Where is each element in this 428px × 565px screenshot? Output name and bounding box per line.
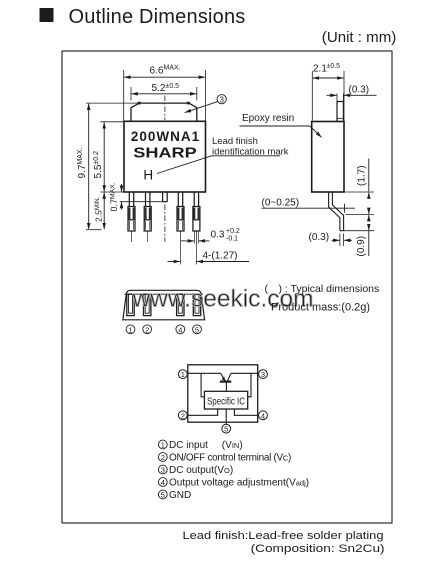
svg-text:(Unit : mm): (Unit : mm) bbox=[322, 30, 397, 46]
ext line 9.7 top bbox=[86, 102, 139, 104]
pin number 5 bbox=[193, 325, 202, 335]
svg-text:200WNA1: 200WNA1 bbox=[131, 129, 200, 144]
diagram pin 5 bbox=[222, 424, 231, 434]
svg-text:±0.5: ±0.5 bbox=[327, 63, 341, 70]
ref line 0-0.25 bbox=[262, 207, 356, 209]
svg-text:5: 5 bbox=[161, 491, 165, 500]
dim 0.3 top arrows bbox=[327, 94, 337, 96]
svg-text:-0.1: -0.1 bbox=[226, 236, 238, 243]
svg-text:9.7MAX.: 9.7MAX. bbox=[77, 147, 88, 178]
svg-text:(0.3): (0.3) bbox=[309, 232, 330, 243]
svg-text:5.2: 5.2 bbox=[152, 83, 166, 94]
side tab step line bbox=[337, 117, 343, 119]
svg-text:3: 3 bbox=[219, 95, 224, 104]
svg-text:0.3: 0.3 bbox=[211, 230, 225, 241]
svg-text:4: 4 bbox=[178, 325, 182, 334]
svg-text:1: 1 bbox=[161, 441, 165, 450]
svg-text:4-(1.27): 4-(1.27) bbox=[203, 251, 238, 262]
pin description 4 bbox=[158, 478, 309, 489]
tab joint dot right bbox=[187, 102, 190, 105]
svg-text:4: 4 bbox=[161, 478, 165, 487]
wire drop left bbox=[201, 373, 204, 397]
svg-text:Specific IC: Specific IC bbox=[207, 395, 245, 407]
svg-text:Outline Dimensions: Outline Dimensions bbox=[69, 6, 246, 28]
svg-text:DC output(VO): DC output(VO) bbox=[169, 465, 233, 476]
INTERNAL CONNECTION DIAGRAM bbox=[188, 365, 258, 425]
dim line 2.5 bbox=[103, 193, 105, 230]
svg-text:(1.7): (1.7) bbox=[357, 165, 368, 186]
side lead bbox=[329, 192, 344, 231]
ext line body bottom left bbox=[101, 191, 125, 193]
svg-text:2: 2 bbox=[161, 453, 165, 462]
svg-text:GND: GND bbox=[169, 490, 191, 501]
label lead finish identification mark bbox=[157, 136, 289, 174]
lead 4 bbox=[177, 192, 184, 265]
side tab bbox=[337, 102, 343, 122]
svg-text:Lead finish: Lead finish bbox=[212, 136, 258, 147]
dim 0.3 bottom arrows bbox=[332, 239, 340, 241]
extension lines 5.2 bbox=[130, 87, 132, 101]
pin description 5 bbox=[158, 490, 191, 501]
bottom view lead 1 bbox=[127, 294, 134, 315]
svg-text:2.1: 2.1 bbox=[313, 64, 327, 75]
wire pin2 bbox=[188, 409, 218, 415]
ext bend end bbox=[346, 214, 375, 216]
bottom view lead 2 bbox=[144, 294, 151, 315]
tick on ref line bbox=[344, 204, 346, 213]
tab centerline bbox=[164, 96, 166, 121]
ext lines 2.1 bbox=[311, 71, 313, 121]
ext lead tip bbox=[344, 230, 374, 232]
svg-text:( ) : Typical dimensions: ( ) : Typical dimensions bbox=[265, 283, 380, 295]
svg-text:(0~0.25): (0~0.25) bbox=[262, 198, 300, 209]
package body bbox=[124, 121, 206, 192]
svg-text:MAX.: MAX. bbox=[164, 64, 181, 71]
diagram pin 2 bbox=[178, 411, 187, 421]
diagram pin 4 bbox=[259, 411, 268, 421]
ext body bottom right bbox=[344, 191, 374, 193]
ext lines 0.3 top bbox=[336, 94, 338, 102]
svg-text:1: 1 bbox=[181, 370, 185, 379]
pin number 4 bbox=[176, 325, 185, 335]
svg-text:5: 5 bbox=[224, 425, 228, 434]
bottom view inner line bbox=[124, 293, 203, 295]
SIDE VIEW bbox=[262, 71, 377, 256]
svg-text:3: 3 bbox=[261, 370, 265, 379]
frame border bbox=[62, 51, 392, 523]
left dimensions bbox=[86, 103, 163, 230]
diagram outer box bbox=[188, 365, 258, 422]
svg-text:DC input (VIN): DC input (VIN) bbox=[169, 440, 243, 451]
wire top right bbox=[231, 372, 258, 374]
svg-text:SHARP: SHARP bbox=[133, 145, 197, 162]
svg-text:±0.5: ±0.5 bbox=[166, 83, 180, 90]
svg-text:2: 2 bbox=[181, 411, 185, 420]
svg-text:2: 2 bbox=[145, 325, 149, 334]
IC block bbox=[204, 391, 247, 409]
bottom view lead 4 bbox=[177, 294, 184, 315]
wire drop right bbox=[248, 373, 251, 397]
lead 1 bbox=[128, 192, 135, 242]
dim 0.3 bottom ext lines bbox=[339, 234, 341, 247]
svg-text:1: 1 bbox=[128, 325, 132, 334]
ext line 0.7 bbox=[120, 201, 163, 203]
svg-text:4: 4 bbox=[261, 411, 265, 420]
side body bbox=[312, 122, 344, 193]
LEADS front view bbox=[128, 192, 200, 265]
svg-text:2.5MIN.: 2.5MIN. bbox=[94, 196, 104, 222]
extension lines 6.6 bbox=[123, 70, 125, 121]
svg-text:3: 3 bbox=[161, 466, 165, 475]
dim line 6.6 bbox=[124, 76, 205, 78]
dim line 1.7 bbox=[368, 159, 370, 192]
lead 2 bbox=[144, 192, 151, 242]
dim line 9.7 bbox=[88, 104, 90, 230]
label epoxy resin bbox=[240, 113, 322, 138]
pin number 2 bbox=[143, 325, 152, 335]
pin number 1 bbox=[126, 325, 135, 335]
dim 0.7 arrows bbox=[121, 184, 123, 192]
lead 5 bbox=[193, 192, 200, 265]
svg-text:(0.3): (0.3) bbox=[349, 85, 370, 96]
svg-text:0.7MAX.: 0.7MAX. bbox=[109, 182, 119, 211]
pin description 1 bbox=[158, 440, 242, 451]
dim 4-(1.27) bbox=[168, 261, 250, 263]
diagram pin 1 bbox=[178, 370, 187, 380]
tab joint dot left bbox=[138, 102, 141, 105]
dim line 0.9 bbox=[368, 215, 370, 221]
dim line 5.5 bbox=[103, 122, 105, 191]
pin description 2 bbox=[158, 453, 291, 464]
svg-text:Product mass:(0.2g): Product mass:(0.2g) bbox=[271, 302, 370, 314]
svg-text:Lead finish:Lead-free solder p: Lead finish:Lead-free solder plating bbox=[183, 530, 384, 542]
svg-text:ON/OFF control terminal (VC): ON/OFF control terminal (VC) bbox=[169, 453, 291, 464]
transistor Q1 bbox=[220, 373, 232, 391]
BOTTOM VIEW bbox=[123, 290, 205, 320]
svg-text:H: H bbox=[143, 168, 153, 183]
dim line 2.1 bbox=[313, 77, 344, 79]
ext line body top left bbox=[101, 121, 125, 123]
dim line 5.2 bbox=[132, 93, 197, 95]
ext line bottom lead tips bbox=[86, 229, 102, 231]
bottom view lead 5 bbox=[193, 294, 200, 315]
svg-text:+0.2: +0.2 bbox=[226, 228, 240, 235]
circled 3 pointer bbox=[185, 95, 226, 113]
wire top left bbox=[188, 372, 221, 374]
svg-text:Epoxy resin: Epoxy resin bbox=[242, 113, 294, 124]
svg-text:5: 5 bbox=[195, 325, 199, 334]
header bullet square bbox=[40, 8, 54, 22]
svg-text:(Composition: Sn2Cu): (Composition: Sn2Cu) bbox=[251, 543, 385, 555]
bottom view outline bbox=[123, 290, 205, 320]
svg-text:Output voltage adjustment(Vadj: Output voltage adjustment(Vadj) bbox=[169, 478, 309, 489]
dim 0.3 lead width bbox=[181, 240, 210, 242]
wire pin4 bbox=[234, 409, 257, 415]
svg-text:6.6: 6.6 bbox=[150, 66, 164, 77]
pin description 3 bbox=[158, 465, 233, 476]
svg-text:(0.9): (0.9) bbox=[356, 236, 367, 257]
wire pin5 bbox=[225, 409, 227, 425]
diagram pin 3 bbox=[259, 370, 268, 380]
lead 3 center stub bbox=[163, 192, 168, 242]
svg-text:5.5±0.2: 5.5±0.2 bbox=[93, 151, 104, 179]
tab outline bbox=[131, 103, 197, 121]
FRONT VIEW bbox=[124, 70, 206, 192]
